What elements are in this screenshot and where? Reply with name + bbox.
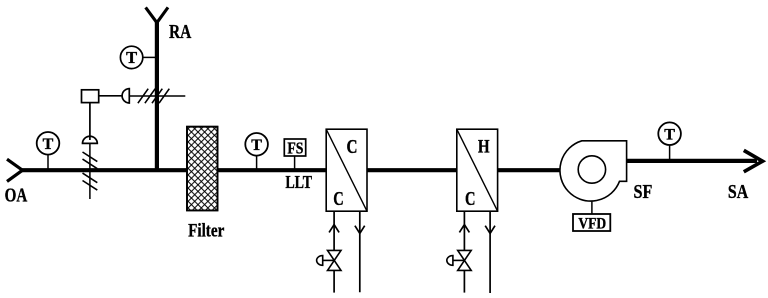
svg-text:T: T: [251, 137, 262, 154]
supply fan scroll: [560, 141, 627, 201]
actuator M1 (dome on OA damper): [83, 136, 98, 143]
svg-text:FS: FS: [287, 138, 303, 157]
pipe: hot water supply: [463, 211, 465, 293]
sensor T1: [37, 132, 60, 169]
heating coil: [457, 129, 498, 211]
svg-text:C: C: [333, 189, 344, 210]
damper D2 (RA): [129, 89, 185, 104]
wire: link box to OA actuator: [89, 103, 91, 140]
svg-text:LLT: LLT: [285, 172, 312, 192]
valve V1: [317, 250, 341, 270]
actuator M2 (dome on RA damper): [122, 89, 129, 103]
svg-text:SF: SF: [634, 181, 653, 203]
arrow up on hot supply pipe: [459, 225, 469, 233]
svg-text:OA: OA: [5, 185, 28, 207]
pipe: chilled water supply: [333, 211, 335, 293]
svg-text:VFD: VFD: [578, 215, 606, 232]
svg-text:C: C: [465, 189, 476, 210]
svg-text:Filter: Filter: [188, 220, 225, 241]
valve V2: [447, 250, 471, 270]
svg-text:H: H: [478, 136, 490, 157]
wire: SA duct: [627, 159, 757, 163]
arrow down on hot return pipe: [485, 226, 495, 234]
VFD box: [573, 214, 610, 232]
svg-text:RA: RA: [169, 21, 192, 43]
svg-text:T: T: [43, 136, 54, 153]
pipe: chilled water return: [359, 211, 361, 292]
wire: OA main duct line: [22, 168, 562, 172]
sensor T2 (RA duct): [120, 46, 157, 68]
flow switch FS: [284, 138, 305, 168]
wire: RA duct: [155, 22, 159, 172]
RA exhaust arrow: [146, 7, 168, 22]
SA outlet arrow: [744, 150, 763, 171]
fan inlet circle: [578, 156, 605, 183]
pipe: hot water return: [489, 211, 491, 293]
arrow up on supply pipe: [329, 225, 339, 233]
svg-text:T: T: [664, 127, 675, 144]
damper D1 (OA): [83, 144, 98, 199]
filter F1: [187, 127, 218, 211]
cooling coil: [326, 129, 367, 211]
sensor T4: [658, 122, 681, 159]
wire: fan to VFD: [591, 201, 593, 214]
wire: link box to RA actuator: [99, 95, 123, 97]
sensor T3: [245, 133, 268, 169]
OA inlet arrow: [7, 159, 23, 181]
svg-text:C: C: [347, 137, 358, 158]
actuator link box: [82, 90, 99, 103]
svg-text:T: T: [126, 48, 137, 67]
svg-text:SA: SA: [728, 181, 749, 203]
arrow down on return pipe: [355, 226, 365, 234]
